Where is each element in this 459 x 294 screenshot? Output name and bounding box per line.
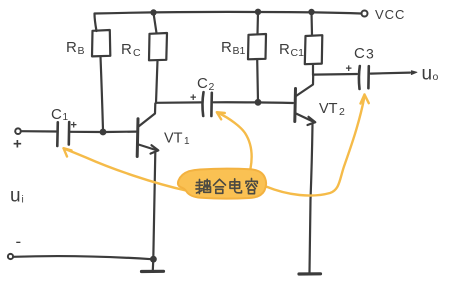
- svg-text:u: u: [422, 64, 433, 85]
- resistor RC1 (box): [305, 35, 323, 64]
- wire: C1 to base node: [71, 131, 102, 133]
- wire: RC bottom to collector node: [156, 61, 158, 104]
- glyph 容: [246, 179, 257, 194]
- wire: VT1 collector node to C2: [156, 101, 201, 104]
- node: rail junction above RB1: [255, 9, 261, 15]
- input terminal - (open circle): [8, 254, 13, 259]
- svg-text:C1: C1: [291, 47, 305, 59]
- svg-text:B: B: [78, 45, 85, 57]
- svg-text:B1: B1: [233, 45, 246, 57]
- svg-text:i: i: [22, 195, 24, 206]
- svg-text:C: C: [133, 47, 141, 59]
- annotation arrow to C3 (orange): [266, 98, 364, 196]
- wire: RC1 bottom to collector/C3 node: [312, 64, 314, 75]
- wire: RB1 top lead: [256, 12, 259, 34]
- transistor VT2 collector: [296, 75, 313, 96]
- svg-text:3: 3: [366, 46, 374, 62]
- svg-text:1: 1: [63, 112, 69, 123]
- transistor VT1 (bar): [136, 119, 140, 157]
- svg-text:2: 2: [209, 81, 215, 93]
- wire: RC top lead: [154, 13, 157, 33]
- svg-text:R: R: [66, 39, 77, 56]
- node: emitter/return junction: [150, 256, 157, 263]
- wire: VT1 emitter down to ground: [153, 153, 156, 271]
- svg-text:u: u: [10, 186, 21, 207]
- wire: RC1 node to C3: [313, 73, 357, 76]
- transistor VT1 collector: [139, 104, 156, 127]
- wire: RC1 top lead: [310, 12, 313, 35]
- wire: RB1 bottom to VT2 base node: [256, 60, 259, 102]
- svg-text:2: 2: [339, 106, 345, 118]
- svg-text:+: +: [13, 136, 22, 153]
- resistor RC (box): [149, 33, 167, 60]
- svg-text:R: R: [221, 39, 232, 56]
- node: rail junction above RC: [150, 9, 156, 15]
- annotation blob 耦合电容 (background): [178, 169, 266, 199]
- input terminal + (open circle): [15, 128, 21, 134]
- node: rail junction above RC1: [308, 9, 314, 15]
- transistor VT2 emitter with arrow: [296, 114, 315, 123]
- transistor VT2 (bar): [293, 89, 297, 122]
- capacitor C2 (plates): [202, 92, 203, 116]
- glyph 耦: [196, 179, 211, 193]
- svg-text:1: 1: [184, 136, 190, 147]
- transistor VT1 emitter with arrow: [139, 145, 158, 151]
- annotation arrow to C2 (orange): [219, 113, 252, 169]
- svg-text:VT: VT: [164, 131, 183, 147]
- wire: top VCC rail: [95, 12, 362, 31]
- capacitor C1 (plates): [56, 122, 59, 146]
- svg-text:C: C: [197, 75, 208, 92]
- svg-text:C: C: [51, 106, 62, 123]
- wire: VT2 emitter down to ground: [310, 124, 313, 273]
- annotation arrow to C1 (orange): [65, 149, 189, 191]
- wire: base node to VT1: [105, 131, 136, 134]
- glyph 合: [214, 179, 226, 193]
- svg-text:R: R: [279, 41, 290, 58]
- glyph 电: [230, 179, 242, 193]
- resistor RB1 (box): [248, 34, 266, 59]
- svg-text:+: +: [190, 92, 196, 104]
- node: VT1 base junction: [100, 129, 107, 136]
- svg-text:+: +: [71, 120, 77, 132]
- ground (VT2): [299, 272, 321, 275]
- resistor RB (box): [92, 30, 110, 56]
- wire: RB bottom to base node: [101, 57, 104, 131]
- wire: input to C1: [21, 130, 56, 133]
- node: VT2 base junction: [255, 99, 262, 106]
- label 耦合电容 (drawn glyphs): [196, 179, 257, 194]
- svg-text:VCC: VCC: [375, 7, 405, 22]
- wire: bottom return to ground node: [13, 256, 151, 259]
- VCC terminal (open circle): [362, 11, 368, 17]
- wire: C3 to output with arrowhead: [371, 73, 411, 74]
- svg-text:C: C: [354, 45, 365, 62]
- svg-text:-: -: [16, 232, 22, 251]
- svg-text:o: o: [433, 71, 439, 83]
- svg-text:+: +: [346, 63, 352, 75]
- ground (VT1): [142, 270, 164, 273]
- svg-text:VT: VT: [319, 101, 338, 117]
- capacitor C3 (plates): [358, 66, 361, 89]
- svg-text:R: R: [121, 41, 132, 58]
- wire: C2 to VT2 base: [214, 101, 294, 104]
